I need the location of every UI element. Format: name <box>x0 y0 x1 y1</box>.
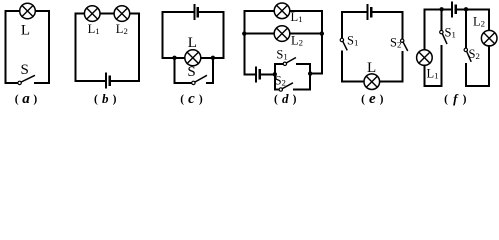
battery (e) <box>367 5 371 19</box>
wire: b right side <box>138 14 140 81</box>
node: c right junction <box>211 56 215 60</box>
switch S1 (d) <box>283 58 295 66</box>
lamp L2 (f) <box>481 30 497 46</box>
svg-text:S1: S1 <box>445 26 456 40</box>
battery (b) <box>106 74 110 88</box>
node: d switch-right junction <box>308 71 312 75</box>
svg-text:L2: L2 <box>473 15 485 29</box>
wire: e left lower <box>341 52 343 82</box>
caption (e) <box>361 91 384 107</box>
lamp L (c) <box>185 50 201 66</box>
wire: a bottom-left <box>6 82 18 84</box>
battery (f) <box>452 2 456 16</box>
svg-text:L2: L2 <box>116 22 128 36</box>
svg-text:): ) <box>113 93 117 105</box>
switch S1 (e) <box>340 38 347 49</box>
wire: c lamp row right <box>201 57 224 59</box>
svg-text:f: f <box>453 91 459 106</box>
wire: c top-right <box>199 11 224 13</box>
wire: a top-left <box>6 10 20 12</box>
wire: d left node riser <box>274 64 276 74</box>
wire: a right side <box>48 11 50 83</box>
wire: f S2 lower <box>465 64 467 86</box>
caption (a) <box>15 91 38 107</box>
switch S2 (d) <box>279 83 292 91</box>
svg-text:S1: S1 <box>276 47 287 61</box>
switch S2 (f) <box>464 48 471 61</box>
wire: f right lower <box>488 46 490 86</box>
svg-text:L1: L1 <box>291 10 303 24</box>
node: d mid-right junction <box>320 31 324 35</box>
wire: f S1 lower <box>441 46 443 86</box>
svg-text:): ) <box>380 93 384 105</box>
lamp L (e) <box>364 74 380 90</box>
wire: f bottom-right <box>466 85 489 87</box>
wire: e top-right <box>372 11 402 13</box>
wire: c branch left vertical <box>174 58 176 83</box>
wire: a left side <box>5 11 7 83</box>
wire: b bottom-left <box>76 80 106 82</box>
wire: f left lower <box>423 65 425 86</box>
svg-text:L2: L2 <box>291 34 303 48</box>
svg-text:L1: L1 <box>88 22 100 36</box>
caption (d) <box>274 91 297 106</box>
node: f right junction <box>464 7 468 11</box>
wire: b bottom-right <box>110 80 139 82</box>
wire: e right upper <box>401 12 403 39</box>
wire: c switch row right <box>207 82 213 84</box>
wire: d bottom-left to battery <box>244 73 255 75</box>
lamp L1 (f) <box>417 50 433 66</box>
node: d mid-left junction <box>242 31 246 35</box>
wire: d middle row <box>244 33 321 35</box>
svg-text:S1: S1 <box>347 34 358 48</box>
lamp L2 (b) <box>114 6 130 22</box>
svg-text:S2: S2 <box>390 36 401 50</box>
wire: d exit to right side <box>310 73 322 75</box>
battery (c) <box>194 5 198 19</box>
svg-text:S2: S2 <box>275 73 286 87</box>
wire: d S1 row left <box>275 63 284 65</box>
svg-text:L: L <box>21 23 30 39</box>
switch S1 (f) <box>440 30 447 43</box>
caption (c) <box>180 91 203 107</box>
svg-text:): ) <box>463 93 467 105</box>
wire: f right upper <box>488 9 490 30</box>
wire: f bottom-left <box>424 85 441 87</box>
battery (d) <box>256 67 260 81</box>
wire: d top segments <box>244 10 321 12</box>
wire: f S1 upper <box>441 9 443 30</box>
svg-text:): ) <box>199 93 203 105</box>
switch S2 (e) <box>401 39 408 50</box>
wire: c branch right vertical <box>212 58 214 83</box>
wire: d S2 row right <box>294 74 310 90</box>
lamp L (a) <box>20 3 36 19</box>
svg-text:(: ( <box>94 93 98 105</box>
node: d switch-left junction <box>273 72 277 76</box>
switch S (a) <box>18 76 34 85</box>
node: c left junction <box>172 56 176 60</box>
wire: e top-left <box>342 11 367 13</box>
svg-text:S: S <box>187 64 195 80</box>
svg-text:a: a <box>22 91 30 107</box>
svg-text:(: ( <box>444 93 448 105</box>
caption (f) <box>444 91 467 106</box>
svg-text:L1: L1 <box>427 66 439 80</box>
wire: f top-right <box>457 8 489 10</box>
wire: b top segments <box>76 13 140 15</box>
wire: d left side <box>243 11 245 75</box>
svg-text:S: S <box>21 62 29 78</box>
wire: e left upper <box>341 12 343 38</box>
svg-text:L: L <box>188 35 197 51</box>
lamp L2 (d) <box>274 26 290 42</box>
node: f left junction <box>439 7 443 11</box>
wire: a bottom-right <box>35 82 49 84</box>
svg-text:): ) <box>293 93 297 105</box>
wire: c right side <box>222 12 224 58</box>
svg-text:e: e <box>369 91 376 107</box>
svg-text:(: ( <box>180 93 184 105</box>
svg-text:): ) <box>33 93 37 105</box>
wire: c left side <box>162 12 164 58</box>
wire: f left upper <box>423 9 425 50</box>
svg-text:c: c <box>188 91 195 107</box>
wire: a top-right <box>35 10 49 12</box>
svg-text:(: ( <box>15 93 19 105</box>
wire: c lamp row left <box>163 57 185 59</box>
lamp L1 (d) <box>274 3 290 19</box>
svg-text:L: L <box>367 60 376 76</box>
wire: e right lower <box>401 52 403 81</box>
svg-text:(: ( <box>361 93 365 105</box>
svg-text:(: ( <box>274 93 278 105</box>
svg-text:b: b <box>102 91 109 106</box>
svg-text:d: d <box>282 91 289 106</box>
wire: d battery to left node <box>261 73 275 75</box>
caption (b) <box>94 91 117 106</box>
wire: d right side <box>321 11 323 74</box>
wire: f S2 upper <box>465 9 467 48</box>
wire: d S2 row left <box>275 89 279 91</box>
wire: d S1 row right <box>297 64 310 74</box>
svg-text:S2: S2 <box>469 47 480 61</box>
wire: e bottom-left <box>342 81 364 83</box>
wire: d left node dropper <box>274 74 276 89</box>
switch S (c) <box>192 76 207 85</box>
wire: e bottom-right <box>380 81 403 83</box>
wire: b left side <box>75 14 77 81</box>
wire: f top-left <box>424 8 451 10</box>
wire: c top-left <box>163 11 194 13</box>
lamp L1 (b) <box>84 6 100 22</box>
wire: c switch row left <box>175 82 192 84</box>
